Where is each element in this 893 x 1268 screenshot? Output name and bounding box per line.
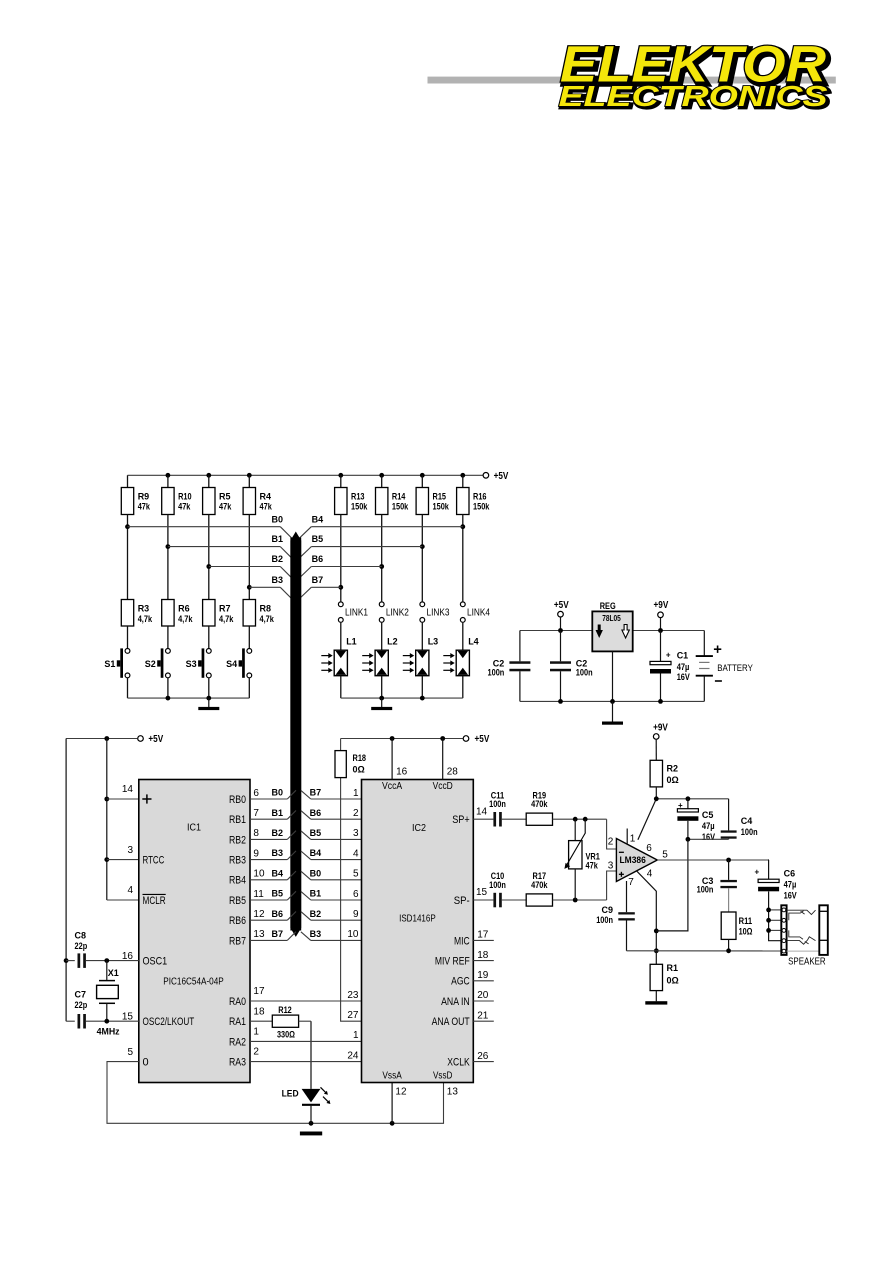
svg-text:7: 7 bbox=[253, 808, 259, 819]
svg-text:MIV REF: MIV REF bbox=[435, 956, 470, 968]
junction on +5V rail x=422.3 bbox=[420, 473, 425, 478]
svg-text:L3: L3 bbox=[428, 637, 439, 647]
svg-text:VssA: VssA bbox=[382, 1071, 402, 1082]
IC2 pin label VccD bbox=[433, 781, 453, 792]
IC1 pin label RB6 bbox=[229, 915, 246, 927]
svg-text:+5V: +5V bbox=[554, 600, 569, 611]
wire bus row B1 (left) bbox=[168, 534, 293, 559]
svg-text:B1: B1 bbox=[271, 534, 283, 544]
svg-text:5: 5 bbox=[127, 1047, 133, 1058]
wire bus row B3 (left) bbox=[249, 575, 292, 600]
wire IC2 MIV REF pin 18 stub bbox=[473, 950, 494, 961]
svg-text:PIC16C54A-04P: PIC16C54A-04P bbox=[163, 976, 224, 987]
wire LDR L4 to bottom rail bbox=[462, 676, 464, 698]
svg-text:C7: C7 bbox=[75, 990, 87, 1000]
wire IC1 pin 5 ground loop bbox=[107, 1047, 444, 1126]
svg-text:RB0: RB0 bbox=[229, 794, 246, 806]
wire IC1 pin 14 bbox=[107, 784, 139, 799]
wire IC1 pin 4 MCLR bbox=[107, 885, 139, 900]
jumper LINK4 bbox=[460, 602, 490, 622]
svg-text:24: 24 bbox=[347, 1050, 359, 1061]
junction B4 on link column bbox=[460, 524, 465, 529]
crystal X1 bbox=[97, 961, 120, 1037]
svg-text:11: 11 bbox=[253, 889, 264, 900]
junction B6 on link column bbox=[379, 564, 384, 569]
IC2 pin number 13 bbox=[447, 1086, 459, 1097]
wire bus row B7 (right) bbox=[299, 575, 341, 599]
LED bbox=[282, 1021, 331, 1123]
wire IC2 MIC pin 17 stub bbox=[473, 930, 494, 941]
IC2 pin label A3 bbox=[366, 855, 379, 867]
capacitor C11 bbox=[489, 790, 506, 826]
wire C10 to R17 bbox=[502, 899, 526, 901]
IC1 pin label RB7 bbox=[229, 935, 246, 947]
svg-text:8: 8 bbox=[253, 828, 259, 839]
wire op-amp output pin 5 bbox=[657, 858, 769, 863]
capacitor C5 bbox=[677, 799, 715, 842]
svg-text:RB3: RB3 bbox=[229, 855, 246, 867]
svg-text:B3: B3 bbox=[310, 929, 322, 939]
svg-text:R3: R3 bbox=[138, 604, 150, 614]
svg-text:16: 16 bbox=[396, 767, 408, 778]
wire R7 to switch S3 bbox=[208, 626, 210, 648]
resistor R18 bbox=[335, 739, 366, 778]
IC1 pin label RA2 bbox=[229, 1036, 246, 1048]
svg-text:B3: B3 bbox=[271, 575, 283, 585]
svg-text:23: 23 bbox=[347, 990, 359, 1001]
speaker jack contact strip bbox=[781, 905, 786, 955]
svg-text:B6: B6 bbox=[312, 554, 324, 564]
wire column x=208.8 top-resistor to lower-resistor bbox=[208, 515, 210, 600]
junction on +5V rail x=208.8 bbox=[206, 473, 211, 478]
svg-text:+5V: +5V bbox=[494, 471, 509, 482]
svg-text:47k: 47k bbox=[178, 501, 191, 511]
ground (power) bbox=[602, 701, 623, 724]
wire IC1 RB1 pin 7 to bus (B1) bbox=[250, 808, 296, 819]
svg-text:17: 17 bbox=[253, 986, 265, 997]
svg-text:10: 10 bbox=[253, 869, 265, 880]
wire R18 column to REC bbox=[341, 778, 362, 1022]
battery bbox=[696, 631, 753, 702]
wire column x=167.9 top-resistor to lower-resistor bbox=[167, 515, 169, 600]
IC2 pin label ANA IN bbox=[441, 996, 470, 1008]
IC1 pin label OSC2/LKOUT bbox=[143, 1016, 195, 1028]
capacitor C3 bbox=[697, 860, 737, 912]
svg-text:13: 13 bbox=[253, 929, 265, 940]
svg-text:B2: B2 bbox=[271, 828, 283, 838]
svg-text:4,7k: 4,7k bbox=[138, 614, 153, 624]
svg-text:S2: S2 bbox=[145, 659, 156, 669]
jumper LINK2 bbox=[379, 602, 409, 622]
svg-text:R5: R5 bbox=[219, 492, 231, 502]
svg-text:6: 6 bbox=[353, 889, 359, 900]
IC2 ISD1416P body bbox=[362, 780, 474, 1083]
potentiometer VR1 bbox=[564, 819, 600, 900]
svg-text:9: 9 bbox=[253, 848, 259, 859]
svg-text:0Ω: 0Ω bbox=[667, 775, 679, 785]
wire bus (B7) to IC2 A0 pin 1 bbox=[301, 788, 362, 799]
svg-text:4,7k: 4,7k bbox=[219, 614, 234, 624]
svg-text:VccA: VccA bbox=[382, 781, 402, 792]
resistor R16 bbox=[457, 475, 491, 514]
wire LINK2 to LDR L2 bbox=[381, 623, 383, 651]
wire op-amp pin 6 to +9V node bbox=[638, 799, 656, 840]
IC1 pin label RTCC bbox=[143, 855, 165, 867]
wire SP- pin 15 bbox=[473, 887, 493, 900]
node +9V power terminal bbox=[654, 600, 669, 630]
svg-text:+9V: +9V bbox=[653, 722, 668, 733]
junction on +5V rail x=249.3 bbox=[247, 473, 252, 478]
IC2 pin label MIC bbox=[454, 935, 470, 947]
wire IC1 RB6 pin 12 to bus (B6) bbox=[250, 909, 296, 920]
wire column x=127.5 top-resistor to lower-resistor bbox=[127, 515, 129, 600]
wire SP+ pin 14 bbox=[473, 806, 493, 819]
svg-text:7: 7 bbox=[628, 877, 634, 888]
junction on +5V rail x=167.9 bbox=[166, 473, 171, 478]
svg-text:10Ω: 10Ω bbox=[739, 927, 753, 937]
resistor R19 bbox=[526, 790, 552, 825]
wire IC2 ANA IN pin 20 stub bbox=[473, 990, 494, 1001]
svg-text:LM386: LM386 bbox=[620, 855, 646, 865]
switch S4 bbox=[226, 648, 252, 677]
svg-text:47µ: 47µ bbox=[677, 662, 690, 672]
svg-text:R11: R11 bbox=[739, 916, 753, 926]
svg-text:470k: 470k bbox=[531, 880, 548, 890]
svg-text:0: 0 bbox=[143, 1057, 149, 1069]
node +5V top terminal bbox=[483, 471, 509, 482]
wire +5V to left column bbox=[66, 736, 137, 741]
svg-text:RB1: RB1 bbox=[229, 814, 246, 826]
wire bus (B2) to IC2 A6 pin 9 bbox=[301, 909, 362, 920]
svg-text:RA2: RA2 bbox=[229, 1036, 246, 1048]
svg-text:REG: REG bbox=[600, 601, 616, 611]
svg-text:R18: R18 bbox=[353, 753, 367, 763]
svg-text:47k: 47k bbox=[138, 501, 151, 511]
resistor R2 bbox=[650, 740, 679, 799]
svg-text:L4: L4 bbox=[468, 637, 479, 647]
svg-text:C6: C6 bbox=[784, 869, 796, 879]
wire R8 to switch S4 bbox=[248, 626, 250, 648]
switch S2 bbox=[145, 648, 171, 677]
svg-text:LED: LED bbox=[282, 1088, 299, 1098]
svg-text:OSC2/LKOUT: OSC2/LKOUT bbox=[143, 1016, 195, 1028]
svg-text:78L05: 78L05 bbox=[602, 614, 621, 623]
IC2 pin label VssD bbox=[433, 1071, 452, 1082]
svg-text:+5V: +5V bbox=[148, 734, 163, 745]
wire C11 to R19 bbox=[502, 818, 526, 820]
IC2 pin label SP- bbox=[454, 895, 470, 907]
IC2 pin label RECLED bbox=[366, 1036, 401, 1048]
wire R19 to opamp pin 2 bbox=[553, 817, 617, 849]
wire R6 to switch S2 bbox=[167, 626, 169, 648]
svg-text:100n: 100n bbox=[697, 884, 714, 894]
svg-text:C5: C5 bbox=[702, 810, 714, 820]
wire bus (B6) to IC2 A1 pin 2 bbox=[301, 808, 362, 819]
svg-text:LINK3: LINK3 bbox=[427, 607, 450, 618]
svg-text:B0: B0 bbox=[271, 788, 283, 798]
svg-text:B0: B0 bbox=[271, 514, 283, 524]
wire IC1 RB0 pin 6 to bus (B0) bbox=[250, 788, 296, 799]
svg-text:B4: B4 bbox=[312, 514, 324, 524]
svg-text:+9V: +9V bbox=[654, 600, 669, 611]
svg-text:SPEAKER: SPEAKER bbox=[788, 957, 826, 968]
svg-text:4: 4 bbox=[127, 885, 133, 896]
svg-text:5: 5 bbox=[662, 850, 668, 861]
wire amp ground rail bbox=[627, 948, 782, 953]
wire column x=462.8 resistor to link bbox=[462, 515, 464, 602]
wire +9V amp rail bbox=[654, 796, 729, 801]
svg-text:6: 6 bbox=[646, 843, 652, 854]
wire R3 to switch S1 bbox=[127, 626, 129, 648]
resistor R13 bbox=[335, 475, 369, 514]
svg-text:R10: R10 bbox=[178, 492, 192, 502]
svg-text:3: 3 bbox=[127, 845, 133, 856]
svg-text:S4: S4 bbox=[226, 659, 237, 669]
IC2 pin label A4 bbox=[366, 875, 379, 887]
svg-text:2: 2 bbox=[608, 836, 614, 847]
svg-text:RA3: RA3 bbox=[229, 1057, 246, 1069]
wire bus row B5 (right) bbox=[299, 534, 422, 558]
regulator REG 78L05 bbox=[592, 601, 632, 651]
IC1 pin label RB1 bbox=[229, 814, 246, 826]
svg-text:100n: 100n bbox=[741, 827, 758, 837]
wire VccD pin 28 bbox=[443, 739, 459, 780]
svg-text:5: 5 bbox=[353, 869, 359, 880]
svg-text:B1: B1 bbox=[271, 808, 283, 818]
svg-text:4,7k: 4,7k bbox=[178, 614, 193, 624]
svg-text:ANA IN: ANA IN bbox=[441, 996, 470, 1008]
wire RA2 to RECLED bbox=[250, 1027, 362, 1042]
svg-text:22p: 22p bbox=[75, 941, 88, 951]
svg-text:3: 3 bbox=[608, 860, 614, 871]
IC1 pin + (14) mark bbox=[142, 794, 151, 803]
wire IC2 ANA OUT pin 21 stub bbox=[473, 1010, 494, 1021]
svg-text:R2: R2 bbox=[667, 764, 679, 774]
junction on +5V rail x=462.8 bbox=[460, 473, 465, 478]
IC2 pin label A1 bbox=[366, 814, 379, 826]
resistor R4 bbox=[243, 475, 273, 514]
svg-text:B3: B3 bbox=[271, 848, 283, 858]
svg-text:C4: C4 bbox=[741, 816, 753, 826]
ground (R1) bbox=[645, 1001, 667, 1004]
IC1 pin label RB2 bbox=[229, 834, 246, 846]
svg-text:14: 14 bbox=[476, 806, 488, 817]
svg-text:B5: B5 bbox=[271, 889, 283, 899]
IC1 pin label RB5 bbox=[229, 895, 246, 907]
svg-text:4MHz: 4MHz bbox=[97, 1027, 120, 1037]
resistor R14 bbox=[376, 475, 410, 514]
resistor R9 bbox=[121, 475, 151, 514]
svg-text:OSC1: OSC1 bbox=[143, 956, 168, 968]
IC1 pin label RB0 bbox=[229, 794, 246, 806]
logo ELECTRONICS bbox=[559, 81, 831, 115]
wire column x=249.3 top-resistor to lower-resistor bbox=[248, 515, 250, 600]
wire R17 to opamp pin 3 bbox=[553, 871, 617, 902]
svg-text:B2: B2 bbox=[310, 909, 322, 919]
speaker jack body bbox=[819, 905, 828, 955]
svg-text:150k: 150k bbox=[351, 501, 368, 511]
wire LDR L1 to bottom rail bbox=[340, 676, 342, 698]
svg-text:B5: B5 bbox=[310, 828, 322, 838]
svg-text:47µ: 47µ bbox=[784, 880, 797, 890]
svg-text:47k: 47k bbox=[219, 501, 232, 511]
svg-text:1: 1 bbox=[353, 1030, 359, 1041]
wire IC1 pin 3 RTCC bbox=[107, 845, 139, 860]
IC2 pin label PLAYL bbox=[366, 996, 393, 1008]
capacitor C7 bbox=[66, 990, 88, 1029]
svg-text:B7: B7 bbox=[312, 575, 324, 585]
svg-text:IC2: IC2 bbox=[412, 823, 426, 834]
svg-text:R14: R14 bbox=[392, 492, 406, 502]
wire column x=381.7 resistor to link bbox=[381, 515, 383, 602]
wire switch S1 to bottom rail bbox=[127, 678, 129, 698]
svg-text:RB5: RB5 bbox=[229, 895, 246, 907]
junction B5 on link column bbox=[420, 544, 425, 549]
node +5V power terminal bbox=[554, 600, 569, 630]
resistor R15 bbox=[416, 475, 450, 514]
wire switch S4 to bottom rail bbox=[248, 678, 250, 698]
LDR L3 bbox=[403, 637, 438, 676]
svg-text:47k: 47k bbox=[586, 861, 599, 871]
svg-text:B6: B6 bbox=[271, 909, 283, 919]
svg-text:12: 12 bbox=[253, 909, 265, 920]
capacitor C8 bbox=[66, 931, 88, 968]
switch S3 bbox=[186, 648, 212, 677]
svg-text:R8: R8 bbox=[260, 604, 272, 614]
IC2 pin label A6 bbox=[366, 915, 379, 927]
wire bus row B0 (left) bbox=[128, 514, 293, 539]
resistor R5 bbox=[203, 475, 233, 514]
wire bus row B6 (right) bbox=[299, 554, 382, 578]
svg-text:RTCC: RTCC bbox=[143, 855, 165, 867]
IC1 PIC16C54A-04P body bbox=[139, 780, 250, 1083]
svg-text:RB7: RB7 bbox=[229, 935, 246, 947]
IC1 pin label OSC1 bbox=[143, 956, 168, 968]
wire IC1 RB2 pin 8 to bus (B2) bbox=[250, 828, 296, 839]
wire power top rail bbox=[520, 628, 704, 633]
wire C5/C4 return bbox=[656, 837, 728, 931]
wire OSC2 pin 15 bbox=[86, 1012, 139, 1024]
svg-text:R6: R6 bbox=[178, 604, 190, 614]
wire IC1 RB4 pin 10 to bus (B4) bbox=[250, 868, 296, 879]
wire bus row B2 (left) bbox=[209, 554, 293, 579]
svg-text:1: 1 bbox=[353, 788, 359, 799]
IC2 pin label A0 bbox=[366, 794, 379, 806]
IC2 pin label AGC bbox=[451, 976, 470, 988]
svg-text:4,7k: 4,7k bbox=[260, 614, 275, 624]
resistor R12 bbox=[250, 1005, 311, 1039]
switch S1 bbox=[104, 648, 130, 677]
svg-text:R15: R15 bbox=[433, 492, 447, 502]
IC2 pin label VccA bbox=[382, 781, 402, 792]
ground (LDR rail) bbox=[371, 698, 392, 710]
IC2 pin label A5 bbox=[366, 895, 379, 907]
svg-text:BATTERY: BATTERY bbox=[717, 663, 753, 673]
svg-text:100n: 100n bbox=[488, 668, 505, 678]
svg-text:SP+: SP+ bbox=[452, 814, 470, 826]
svg-text:B4: B4 bbox=[310, 848, 322, 858]
svg-text:6: 6 bbox=[253, 788, 259, 799]
svg-text:C1: C1 bbox=[677, 650, 689, 660]
capacitor C6 bbox=[754, 860, 796, 901]
svg-text:LINK2: LINK2 bbox=[386, 607, 409, 618]
svg-text:16V: 16V bbox=[784, 891, 797, 901]
svg-text:14: 14 bbox=[122, 784, 134, 795]
IC1 pin label RB4 bbox=[229, 875, 246, 887]
svg-text:1: 1 bbox=[253, 1027, 259, 1038]
svg-text:26: 26 bbox=[477, 1051, 489, 1062]
svg-text:ISD1416P: ISD1416P bbox=[399, 913, 436, 924]
resistor R3 bbox=[121, 600, 153, 627]
svg-text:2: 2 bbox=[253, 1047, 259, 1058]
svg-text:10: 10 bbox=[347, 929, 359, 940]
resistor R10 bbox=[162, 475, 192, 514]
wire +5V top rail bbox=[128, 474, 483, 476]
ground (LED) bbox=[300, 1132, 322, 1136]
svg-text:L2: L2 bbox=[387, 637, 398, 647]
svg-text:100n: 100n bbox=[576, 668, 593, 678]
IC2 pin label A2 bbox=[366, 834, 379, 846]
svg-text:4: 4 bbox=[353, 848, 359, 859]
wire IC1 pin14/RTCC/MCLR column bbox=[104, 739, 109, 901]
svg-text:S1: S1 bbox=[104, 659, 115, 669]
svg-text:RB6: RB6 bbox=[229, 915, 246, 927]
wire LINK3 to LDR L3 bbox=[421, 623, 423, 651]
wire IC2 AGC pin 19 stub bbox=[473, 970, 494, 981]
svg-text:ELECTRONICS: ELECTRONICS bbox=[559, 81, 829, 113]
svg-text:15: 15 bbox=[122, 1012, 134, 1023]
svg-text:150k: 150k bbox=[433, 501, 450, 511]
wire C6 to jack contacts bbox=[766, 892, 781, 941]
svg-text:R13: R13 bbox=[351, 492, 365, 502]
svg-text:470k: 470k bbox=[531, 799, 548, 809]
wire IC1 RB7 pin 13 to bus (B7) bbox=[250, 929, 296, 940]
label SPEAKER bbox=[788, 957, 826, 968]
svg-text:100n: 100n bbox=[596, 915, 613, 925]
svg-text:RB4: RB4 bbox=[229, 875, 246, 887]
wire IC1 RB3 pin 9 to bus (B3) bbox=[250, 848, 296, 859]
svg-text:20: 20 bbox=[477, 990, 489, 1001]
resistor R1 bbox=[650, 951, 679, 1002]
svg-text:150k: 150k bbox=[473, 501, 490, 511]
svg-text:RA1: RA1 bbox=[229, 1016, 246, 1028]
wire IC2 VssA leg bbox=[392, 1083, 407, 1124]
svg-text:17: 17 bbox=[477, 930, 489, 941]
IC1 pin label 0 (pin 5) bbox=[143, 1057, 149, 1069]
svg-text:LINK1: LINK1 bbox=[345, 607, 368, 618]
LDR L1 bbox=[321, 637, 356, 676]
svg-text:15: 15 bbox=[476, 887, 488, 898]
node +5V terminal (IC1) bbox=[138, 734, 164, 745]
svg-text:IC1: IC1 bbox=[187, 823, 201, 834]
svg-text:B7: B7 bbox=[271, 929, 283, 939]
svg-text:RB2: RB2 bbox=[229, 834, 246, 846]
node +9V terminal (amp) bbox=[653, 722, 668, 739]
resistor R8 bbox=[243, 600, 275, 627]
svg-text:22p: 22p bbox=[75, 1000, 88, 1010]
resistor R11 bbox=[721, 912, 752, 951]
junction B1 on column bbox=[166, 544, 171, 549]
wire LINK4 to LDR L4 bbox=[462, 623, 464, 651]
svg-text:MIC: MIC bbox=[454, 935, 470, 947]
svg-text:B6: B6 bbox=[310, 808, 322, 818]
wire bus row B4 (right) bbox=[299, 514, 463, 538]
IC1 pin label RA1 bbox=[229, 1016, 246, 1028]
svg-text:R4: R4 bbox=[260, 492, 272, 502]
svg-text:X1: X1 bbox=[108, 968, 119, 978]
svg-text:21: 21 bbox=[477, 1010, 489, 1021]
wire LDR L3 to bottom rail bbox=[421, 676, 423, 698]
